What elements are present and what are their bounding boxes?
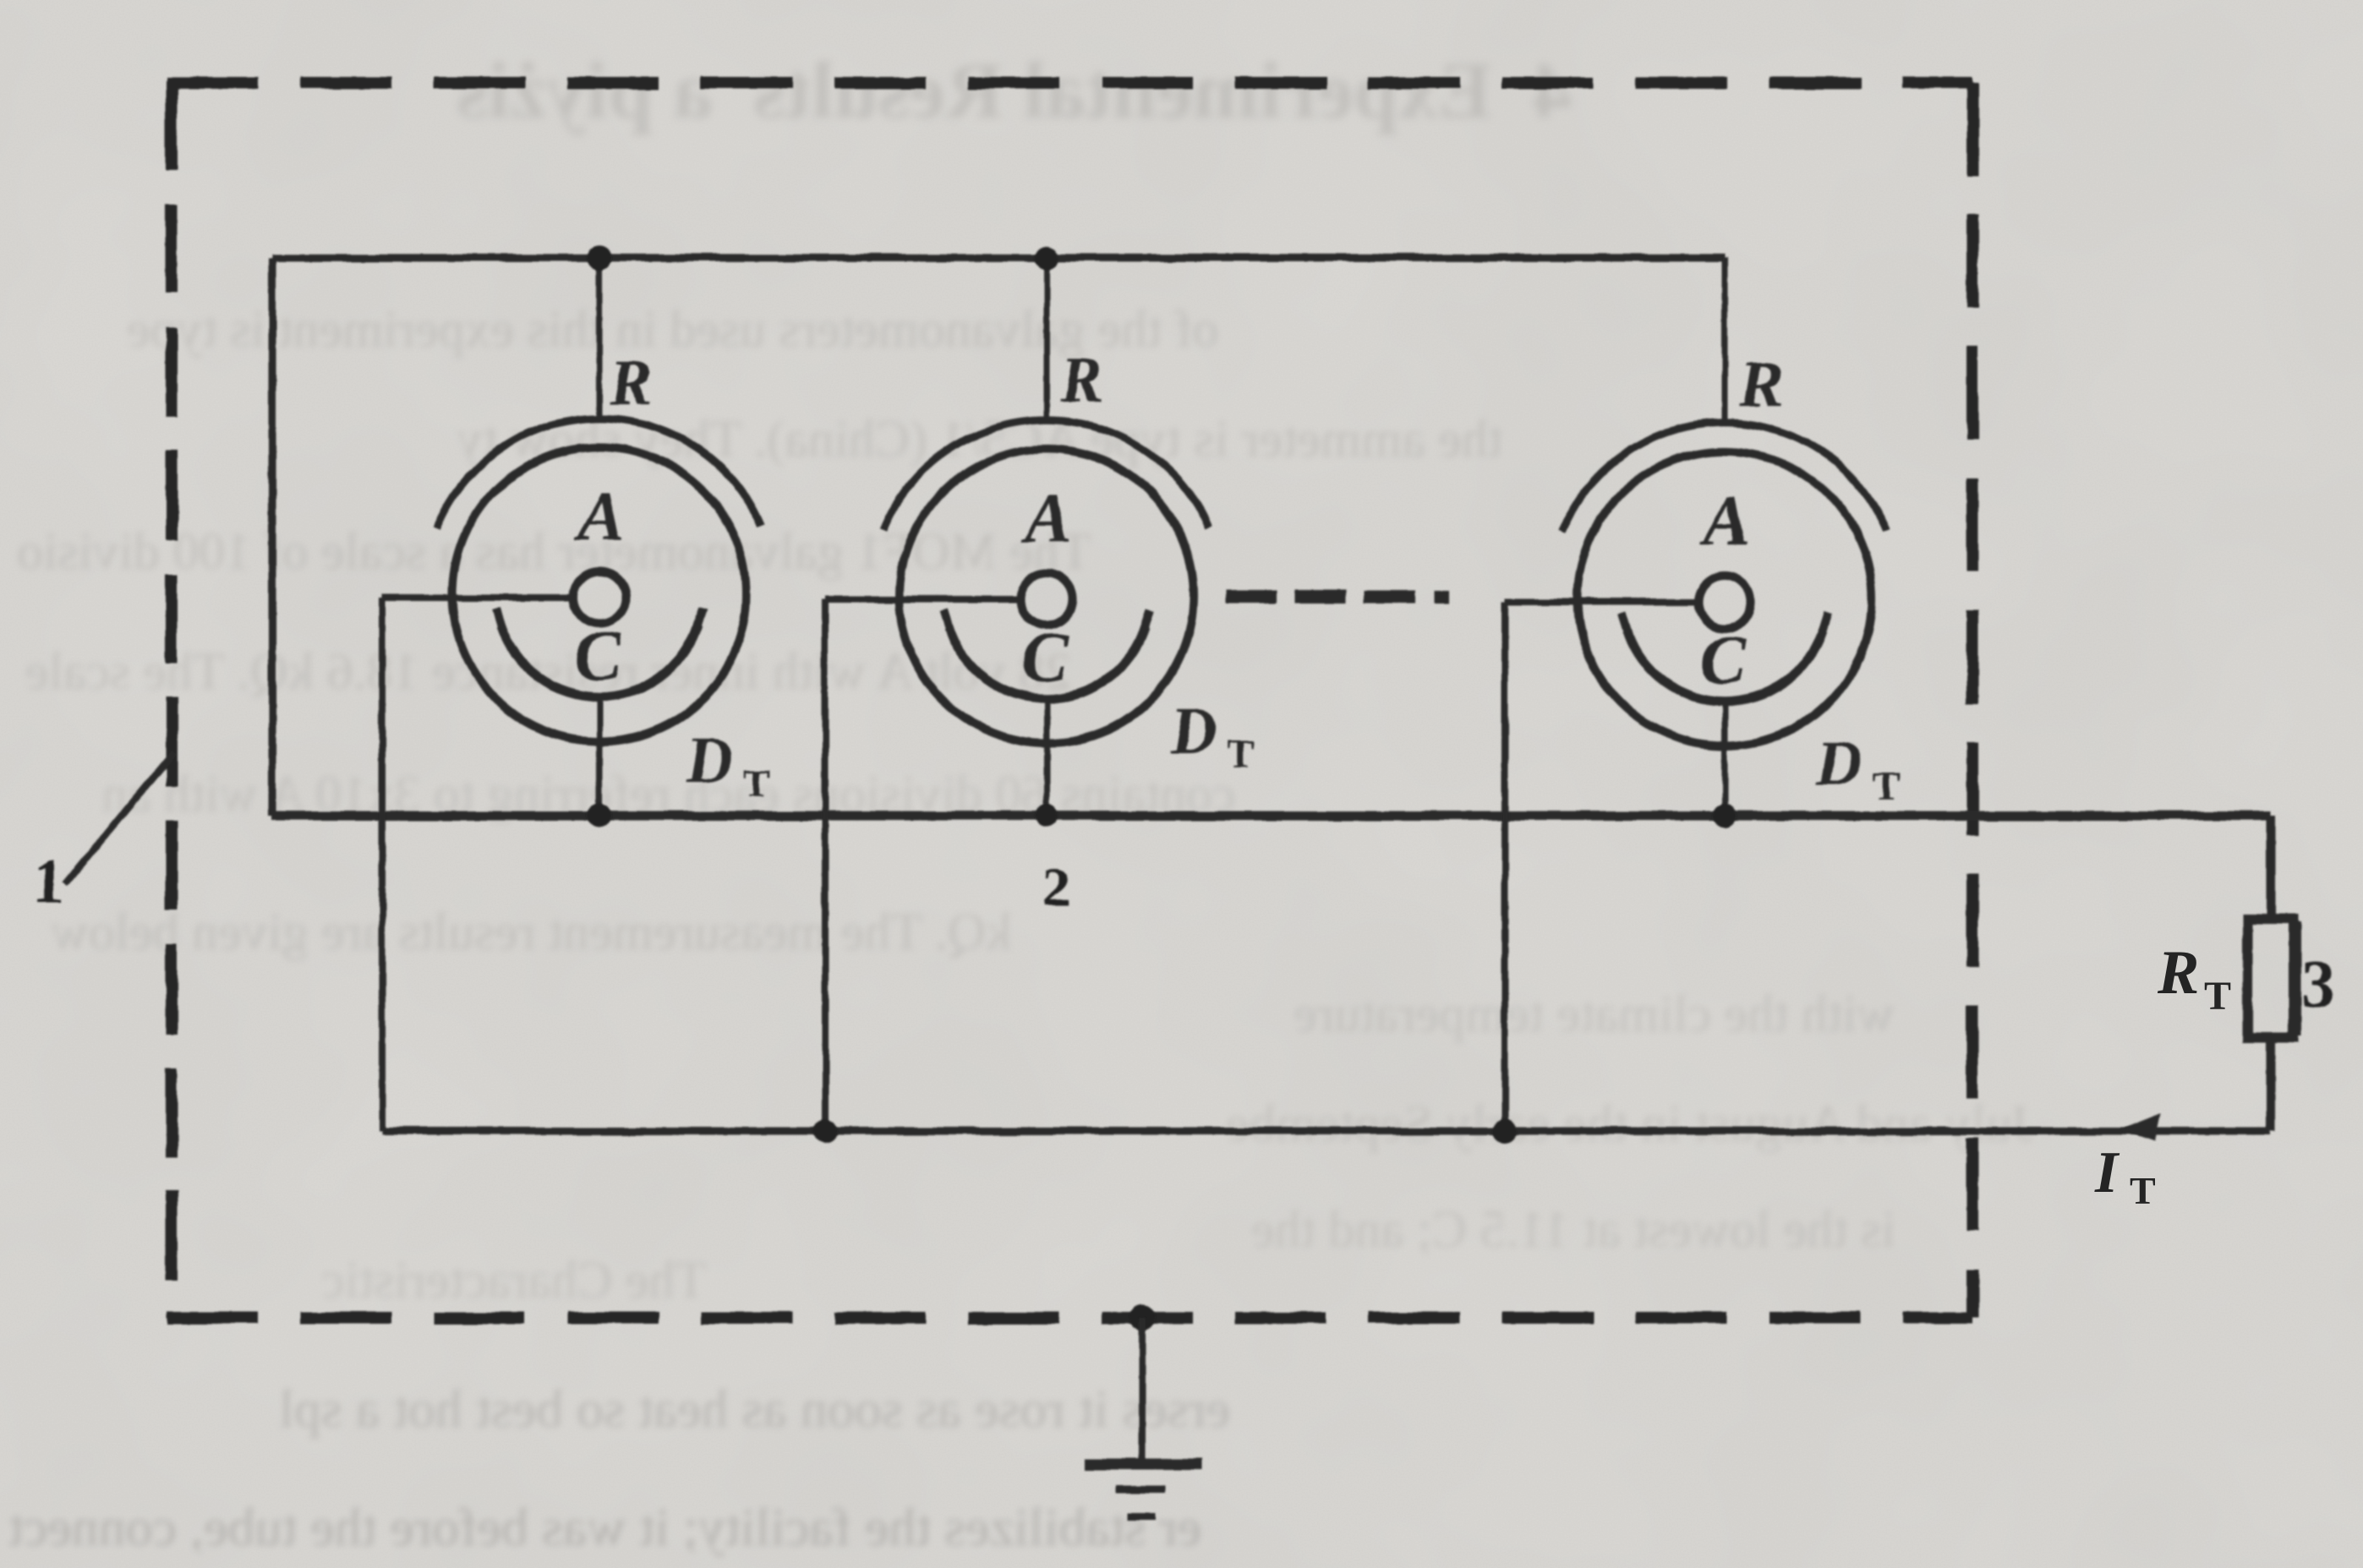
- right wire middle bus to resistor RT: [2267, 816, 2276, 921]
- svg-text:A: A: [1698, 482, 1750, 560]
- tube2 anode wire: [825, 596, 1021, 603]
- svg-text:T: T: [2204, 974, 2231, 1019]
- dashed enclosure border 1: [167, 80, 1972, 1318]
- tube1 reflector arc R: [436, 418, 761, 528]
- left wire from top bus to middle bus: [269, 258, 276, 816]
- node tube2 DT / middle bus: [1035, 804, 1058, 828]
- tube1 anode return wire: [379, 598, 386, 1131]
- galvanometer tube 2: [825, 258, 1255, 1131]
- node tube2 anode / lower bus: [813, 1119, 837, 1143]
- label IT: [2094, 1140, 2156, 1212]
- node tube3 anode / lower bus: [1493, 1119, 1517, 1143]
- tube3 anode wire: [1505, 598, 1699, 605]
- tube2 envelope: [900, 449, 1194, 743]
- tube2 cathode lead: [1044, 699, 1050, 816]
- ground: [1085, 1318, 1202, 1516]
- svg-text:D: D: [1815, 728, 1863, 799]
- tube2 cathode arc: [949, 628, 1145, 699]
- svg-text:3: 3: [2301, 948, 2335, 1022]
- tube2 reflector arc R: [883, 420, 1208, 530]
- svg-text:T: T: [743, 762, 770, 806]
- tube3 cathode lead: [1722, 702, 1728, 816]
- current arrow IT: [2120, 1113, 2161, 1141]
- galvanometer tube 1: [382, 258, 770, 1131]
- node tube3 DT / middle bus: [1713, 804, 1737, 828]
- wire resistor RT to lower bus: [2267, 1035, 2276, 1131]
- tube1 label DT: [686, 725, 770, 806]
- svg-text:T: T: [2130, 1169, 2156, 1212]
- tube1 center electrode: [573, 571, 626, 624]
- svg-text:C: C: [574, 616, 622, 695]
- tube1 anode wire: [382, 594, 574, 601]
- label RT: [2157, 938, 2231, 1019]
- tube2 R lead: [1044, 258, 1050, 423]
- continuation dashes (more tubes): [1226, 590, 1449, 604]
- svg-text:R: R: [609, 347, 653, 418]
- svg-text:A: A: [573, 478, 625, 556]
- tube1 cathode arc: [501, 626, 697, 697]
- tube3 anode return wire: [1501, 602, 1508, 1131]
- bleed-through backdrop text (decorative): [457, 44, 1572, 137]
- tube3 envelope: [1578, 451, 1872, 746]
- middle bus wire DT: [272, 811, 2271, 821]
- svg-text:I: I: [2094, 1140, 2120, 1205]
- tube1 envelope: [452, 447, 747, 741]
- node tube2 R / top bus: [1035, 246, 1058, 270]
- tube2 anode return wire: [822, 599, 829, 1131]
- tube1 cathode lead: [597, 697, 603, 816]
- resistor RT body: [2248, 919, 2294, 1037]
- tube3 R lead: [1722, 258, 1728, 425]
- svg-text:C: C: [1699, 620, 1748, 699]
- svg-text:R: R: [1059, 344, 1103, 415]
- svg-text:2: 2: [1043, 856, 1071, 918]
- tube3 reflector arc R: [1562, 423, 1886, 533]
- tube2 center electrode: [1020, 573, 1073, 626]
- svg-text:A: A: [1020, 479, 1072, 558]
- lower bus wire (anode return): [382, 1128, 2271, 1135]
- node tube1 R / top bus: [588, 246, 611, 270]
- tube1 R lead: [597, 258, 603, 421]
- leader line for label 1: [65, 752, 174, 884]
- svg-text:1: 1: [33, 846, 65, 917]
- tube2 label DT: [1170, 696, 1255, 777]
- galvanometer tube 3: [1505, 258, 1900, 1131]
- tube3 cathode arc: [1627, 631, 1823, 702]
- svg-text:T: T: [1873, 764, 1900, 809]
- tube3 center electrode: [1698, 576, 1751, 628]
- node ground / border: [1130, 1305, 1155, 1330]
- svg-text:R: R: [2157, 938, 2199, 1008]
- svg-text:R: R: [1739, 349, 1783, 420]
- top bus wire R: [272, 254, 1725, 262]
- tube3 label DT: [1815, 728, 1900, 809]
- svg-text:D: D: [1170, 696, 1217, 767]
- svg-text:D: D: [686, 725, 733, 796]
- svg-text:T: T: [1228, 732, 1255, 777]
- svg-text:C: C: [1021, 618, 1069, 697]
- node tube1 DT / middle bus: [588, 804, 611, 828]
